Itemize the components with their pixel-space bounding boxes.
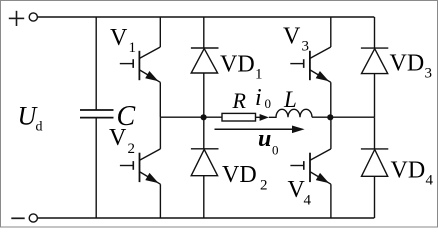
svg-text:i: i	[255, 85, 262, 111]
diode VD1	[191, 17, 219, 117]
capacitor C	[80, 110, 114, 118]
plus sign (+ supply polarity)	[9, 11, 24, 26]
svg-text:3: 3	[302, 39, 310, 55]
node right output junction	[327, 114, 333, 120]
diode VD3	[361, 17, 388, 117]
transistor V1 (IGBT)	[120, 17, 161, 117]
resistor R	[222, 113, 256, 121]
svg-text:u: u	[258, 126, 271, 152]
arrow i0 on wire	[256, 116, 262, 118]
svg-text:L: L	[283, 87, 297, 112]
svg-text:d: d	[36, 120, 43, 135]
svg-text:3: 3	[425, 66, 433, 82]
diode VD4	[361, 117, 388, 218]
svg-text:V: V	[283, 24, 301, 50]
svg-text:V: V	[109, 125, 127, 151]
svg-text:V: V	[110, 25, 128, 51]
transistor V3 (IGBT)	[290, 17, 331, 117]
transistor V2 (IGBT)	[120, 117, 160, 218]
svg-text:1: 1	[129, 40, 137, 56]
svg-text:VD: VD	[220, 52, 255, 78]
svg-text:VD: VD	[222, 162, 257, 188]
inductor L	[269, 109, 312, 117]
svg-text:2: 2	[260, 178, 268, 194]
svg-text:2: 2	[128, 141, 136, 157]
transistor V4 (IGBT)	[290, 117, 331, 218]
diode VD2	[191, 117, 219, 218]
wire middle rail left	[160, 116, 222, 118]
arrow u0	[215, 128, 295, 130]
wire middle rail right	[312, 116, 374, 118]
terminal circle top	[29, 13, 37, 21]
terminal circle bottom	[29, 214, 37, 222]
wire capacitor leg	[95, 17, 97, 218]
svg-text:0: 0	[265, 96, 272, 111]
svg-text:R: R	[232, 88, 247, 113]
svg-text:4: 4	[304, 193, 312, 209]
wire bottom rail	[38, 217, 375, 219]
svg-text:0: 0	[272, 143, 279, 158]
svg-text:4: 4	[426, 173, 434, 189]
node left output junction	[201, 114, 207, 120]
wire top rail	[38, 16, 375, 18]
minus sign (- supply polarity)	[11, 217, 24, 219]
svg-text:VD: VD	[391, 158, 426, 184]
svg-text:VD: VD	[390, 51, 425, 77]
svg-text:1: 1	[255, 67, 263, 83]
